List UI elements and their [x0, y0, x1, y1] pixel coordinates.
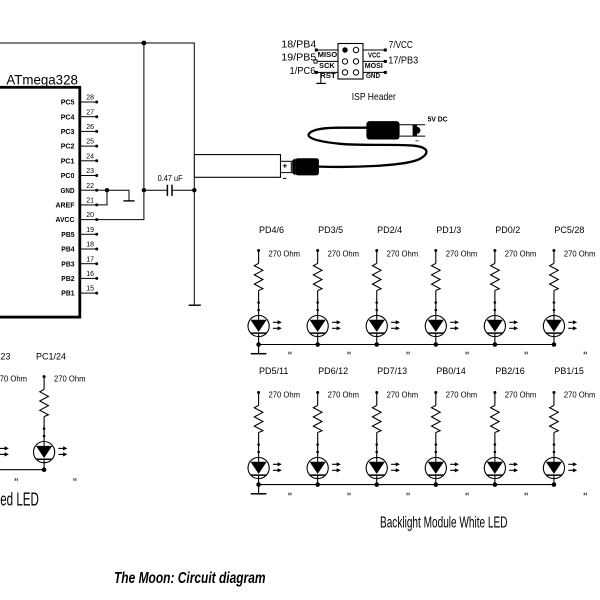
pin 26 PC3 of U1: [81, 130, 97, 132]
LED D3 (PD2/4): [366, 315, 387, 336]
pin 21 AREF of U1: [81, 204, 97, 206]
wire resistor to LED (PD6/12): [317, 433, 319, 458]
resistor R2 270 Ohm (PD3/5): [316, 249, 319, 252]
svg-text:PC3: PC3: [61, 127, 75, 136]
barrel sleeve outline: [400, 124, 426, 126]
LED D4 (PD1/3): [425, 315, 446, 336]
wire resistor to LED (PB2/16): [494, 433, 496, 458]
junction cap left node: [142, 188, 146, 192]
pin 25 PC2 of U1: [81, 145, 97, 147]
junction on bus (PB2/16): [493, 482, 498, 487]
wire LED to bus (PC1/24): [43, 463, 45, 470]
svg-text:PC4: PC4: [61, 112, 75, 121]
junction on bus (PD3/5): [315, 342, 320, 347]
ground symbol below PD4/6: [258, 345, 260, 354]
wire MISO stub: [316, 49, 338, 51]
svg-text:26: 26: [86, 124, 94, 131]
LED D6 (PC5/28): [543, 315, 564, 336]
resistor R8 270 Ohm (PD6/12): [316, 391, 319, 394]
svg-text:ed LED: ed LED: [0, 489, 39, 509]
wire VCC rail from MCU (off-canvas) to DC jack: [0, 43, 194, 155]
LED D10 (PB0/14): [425, 457, 446, 478]
wire AVCC branch: rail junction down to cap node and AVCC pin 20: [97, 43, 144, 220]
svg-text:ISP Header: ISP Header: [352, 91, 396, 103]
svg-text:PD6/12: PD6/12: [318, 366, 348, 376]
junction node VCC/AVCC branch: [142, 41, 147, 46]
svg-text:7/VCC: 7/VCC: [389, 40, 413, 51]
svg-text:19: 19: [86, 227, 94, 234]
wire resistor to LED (PC5/28): [553, 291, 555, 316]
svg-text:AREF: AREF: [56, 201, 75, 210]
svg-text:PC1: PC1: [61, 156, 75, 165]
pin 24 PC1 of U1: [81, 160, 97, 162]
power plug body: [295, 158, 319, 175]
ISP header pin 3 SCK: [342, 59, 347, 64]
pin 15 PB1 of U1: [81, 292, 97, 294]
junction on bus (PD2/4): [374, 342, 379, 347]
svg-text:270 Ohm: 270 Ohm: [269, 391, 301, 400]
wire resistor to LED (PD2/4): [376, 291, 378, 316]
svg-text:PB3: PB3: [61, 259, 74, 268]
svg-text:PD3/5: PD3/5: [318, 225, 343, 235]
svg-text:AVCC: AVCC: [56, 215, 75, 224]
junction on bus (PD1/3): [434, 342, 439, 347]
wire MOSI stub: [363, 60, 385, 62]
DC jack tip contact box with plus: [281, 161, 292, 172]
wire LED to bus (PD6/12): [317, 479, 319, 485]
svg-text:20: 20: [86, 212, 94, 219]
resistor R1 270 Ohm (PD4/6): [257, 249, 260, 252]
svg-text:MOSI: MOSI: [365, 63, 383, 70]
junction GND/AREF: [105, 188, 109, 192]
DC power jack J1 receptacle body: [194, 155, 280, 178]
wire LED to bus (PD2/4): [376, 337, 378, 345]
resistor R10 270 Ohm (PB0/14): [434, 391, 437, 394]
svg-text:0.47 uF: 0.47 uF: [158, 174, 183, 183]
wire resistor to LED (PD3/5): [317, 291, 319, 316]
junction on bus (PD6/12): [315, 482, 320, 487]
svg-text:Backlight Module White LED: Backlight Module White LED: [380, 514, 508, 531]
svg-text:23: 23: [86, 168, 94, 175]
junction on bus (PC1/24): [42, 467, 47, 472]
wire resistor to LED (PB0/14): [435, 433, 437, 458]
svg-text:RST: RST: [320, 73, 336, 80]
wire resistor to LED (PC1/24): [43, 417, 45, 442]
ISP header pin 1 MISO (filled): [342, 47, 347, 52]
svg-text:16: 16: [86, 271, 94, 278]
ISP header pin 5 RST: [342, 70, 347, 75]
red LED module cathode bus (clipped): [0, 469, 44, 471]
wire resistor to LED (PD0/2): [494, 291, 496, 316]
svg-text:5V DC: 5V DC: [428, 115, 449, 124]
white LED module row 2 cathode bus: [259, 484, 554, 486]
wire resistor to LED (PB1/15): [553, 433, 555, 458]
wire LED to bus (PC5/28): [553, 337, 555, 345]
IC U1 ATmega328 body (clipped at left edge): [0, 87, 80, 317]
svg-text:28: 28: [86, 95, 94, 102]
svg-text:PC2: PC2: [61, 142, 75, 151]
svg-text:21: 21: [86, 198, 94, 205]
wire GND pin 22 to junction: [97, 189, 108, 191]
svg-text:23: 23: [0, 352, 10, 362]
LED D8 (PD6/12): [307, 457, 328, 478]
wire LED to bus (PB1/15): [553, 479, 555, 485]
svg-text:PB1/15: PB1/15: [554, 366, 584, 376]
resistor R9 270 Ohm (PD7/13): [375, 391, 378, 394]
svg-text:17/PB3: 17/PB3: [388, 55, 418, 66]
svg-text:19/PB5: 19/PB5: [281, 52, 316, 63]
pin 20 AVCC of U1: [81, 219, 97, 221]
svg-text:25: 25: [86, 139, 94, 146]
junction on bus (PB0/14): [434, 482, 439, 487]
wire cap left node: [144, 189, 167, 191]
junction on bus (PD0/2): [493, 342, 498, 347]
svg-text:1/PC6: 1/PC6: [290, 66, 316, 77]
ISP header J2 body: [338, 44, 363, 80]
bus continuation dots row 2: [288, 493, 289, 496]
svg-text:17: 17: [86, 256, 94, 263]
svg-text:18/PB4: 18/PB4: [281, 40, 316, 51]
svg-text:270 Ohm: 270 Ohm: [387, 391, 419, 400]
LED D12 (PB1/15): [543, 457, 564, 478]
svg-text:270 Ohm: 270 Ohm: [564, 249, 596, 258]
svg-text:270 Ohm: 270 Ohm: [387, 249, 419, 258]
wire VCC stub: [363, 49, 385, 51]
pin 22 GND of U1: [81, 189, 97, 191]
barrel plug body 5V DC: [366, 121, 399, 139]
svg-text:The Moon: Circuit diagram: The Moon: Circuit diagram: [114, 570, 266, 587]
ground symbol below PD5/11: [258, 485, 260, 494]
svg-text:PD5/11: PD5/11: [259, 366, 288, 376]
resistor R6 270 Ohm (PC5/28): [552, 249, 555, 252]
svg-text:PB0/14: PB0/14: [436, 366, 466, 376]
ISP header pin 2 VCC: [353, 47, 358, 52]
power plug collar: [292, 158, 295, 175]
junction on bus (PC5/28): [552, 342, 557, 347]
junction on bus (PD7/13): [374, 482, 379, 487]
capacitor C1 0.47 uF plates: [166, 185, 168, 196]
wire LED to bus (PD5/11): [258, 479, 260, 485]
wire GND stub: [363, 71, 385, 73]
LED D14 (PC1/24): [34, 442, 55, 463]
svg-text:PB2/16: PB2/16: [495, 366, 525, 376]
svg-text:PB2: PB2: [61, 274, 74, 283]
svg-text:270 Ohm: 270 Ohm: [0, 375, 27, 384]
svg-text:270 Ohm: 270 Ohm: [505, 249, 537, 258]
svg-text:ATmega328: ATmega328: [6, 72, 78, 88]
bus continuation dots row 1: [288, 352, 289, 355]
LED D2 (PD3/5): [307, 315, 328, 336]
svg-text:PC0: PC0: [61, 171, 75, 180]
svg-text:270 Ohm: 270 Ohm: [54, 375, 86, 384]
main ground symbol: [189, 304, 201, 306]
wire resistor to LED (PD4/6): [258, 291, 260, 316]
junction on bus (PB1/15): [552, 482, 557, 487]
LED D7 (PD5/11): [248, 457, 269, 478]
svg-text:PD7/13: PD7/13: [377, 366, 407, 376]
svg-text:GND: GND: [366, 73, 380, 80]
svg-text:15: 15: [86, 286, 94, 293]
junction on bus (PD5/11): [256, 482, 261, 487]
svg-text:GND: GND: [61, 186, 75, 195]
svg-text:PB4: PB4: [61, 245, 75, 254]
ground symbol at pin 22 net: [123, 200, 134, 202]
svg-text:270 Ohm: 270 Ohm: [446, 249, 478, 258]
resistor R14 270 Ohm (PC1/24): [43, 375, 46, 378]
svg-text:PC1/24: PC1/24: [36, 352, 66, 362]
svg-text:PD4/6: PD4/6: [259, 225, 284, 235]
wire SCK stub with open terminal: [317, 60, 338, 62]
resistor R7 270 Ohm (PD5/11): [257, 391, 260, 394]
resistor R4 270 Ohm (PD1/3): [434, 249, 437, 252]
svg-text:18: 18: [86, 242, 94, 249]
wire junction to ground symbol: [107, 190, 129, 201]
svg-text:PD2/4: PD2/4: [377, 225, 402, 235]
svg-text:PC5/28: PC5/28: [554, 225, 584, 235]
svg-text:270 Ohm: 270 Ohm: [328, 249, 360, 258]
pin 17 PB3 of U1: [81, 263, 97, 265]
pin 19 PB5 of U1: [81, 233, 97, 235]
ISP header pin 4 MOSI: [353, 59, 358, 64]
svg-text:270 Ohm: 270 Ohm: [269, 249, 301, 258]
LED D11 (PB2/16): [484, 457, 505, 478]
wire GND drop from DC jack minus to main ground: [193, 177, 195, 305]
pin 23 PC0 of U1: [81, 175, 97, 177]
svg-text:PD1/3: PD1/3: [436, 225, 461, 235]
caption Backlight Module Red LED (clipped): [0, 489, 39, 509]
junction on bus (PD4/6): [256, 342, 261, 347]
resistor R5 270 Ohm (PD0/2): [493, 249, 496, 252]
wire LED to bus (PB2/16): [494, 479, 496, 485]
svg-text:VCC: VCC: [368, 52, 381, 59]
barrel tip contact: [413, 125, 417, 136]
LED D5 (PD0/2): [484, 315, 505, 336]
resistor R3 270 Ohm (PD2/4): [375, 249, 378, 252]
pin 18 PB4 of U1: [81, 248, 97, 250]
wire LED to bus (PD1/3): [435, 337, 437, 345]
junction cap right / GND drop node: [192, 188, 196, 192]
pin 28 PC5 of U1: [81, 101, 97, 103]
DC jack minus mark: [283, 177, 286, 179]
wire AREF pin 21 up to GND junction: [97, 190, 108, 205]
svg-text:24: 24: [86, 153, 94, 160]
pin 27 PC4 of U1: [81, 116, 97, 118]
wire cap right plate to GND node: [173, 189, 195, 191]
pin 16 PB2 of U1: [81, 277, 97, 279]
svg-text:MISO: MISO: [318, 52, 338, 59]
wire resistor to LED (PD5/11): [258, 433, 260, 458]
wire LED to bus (PD4/6): [258, 337, 260, 345]
ISP header pin 6 GND: [353, 70, 358, 75]
svg-text:270 Ohm: 270 Ohm: [328, 391, 360, 400]
power cable: [309, 128, 427, 167]
white LED module row 1 cathode bus: [259, 344, 554, 346]
ground symbol on RST net: [320, 72, 322, 83]
bus continuation dots red module: [15, 478, 16, 481]
svg-text:270 Ohm: 270 Ohm: [505, 391, 537, 400]
svg-text:270 Ohm: 270 Ohm: [564, 391, 596, 400]
wire LED to bus (PD0/2): [494, 337, 496, 345]
wire LED to bus (PD3/5): [317, 337, 319, 345]
LED D9 (PD7/13): [366, 457, 387, 478]
svg-text:PD0/2: PD0/2: [495, 225, 520, 235]
wire LED to bus (PD7/13): [376, 479, 378, 485]
svg-text:PB5: PB5: [61, 230, 75, 239]
LED D1 (PD4/6): [248, 315, 269, 336]
stray mark under barrel: [415, 140, 418, 142]
wire resistor to LED (PD7/13): [376, 433, 378, 458]
svg-text:27: 27: [86, 109, 94, 116]
svg-text:22: 22: [86, 183, 94, 190]
wire RST stub: [316, 71, 338, 73]
svg-text:SCK: SCK: [319, 63, 335, 70]
resistor R11 270 Ohm (PB2/16): [493, 391, 496, 394]
svg-text:PC5: PC5: [61, 98, 75, 107]
resistor R12 270 Ohm (PB1/15): [552, 391, 555, 394]
wire resistor to LED (PD1/3): [435, 291, 437, 316]
svg-text:PB1: PB1: [61, 289, 75, 298]
wire LED to bus (PB0/14): [435, 479, 437, 485]
svg-text:270 Ohm: 270 Ohm: [446, 391, 478, 400]
